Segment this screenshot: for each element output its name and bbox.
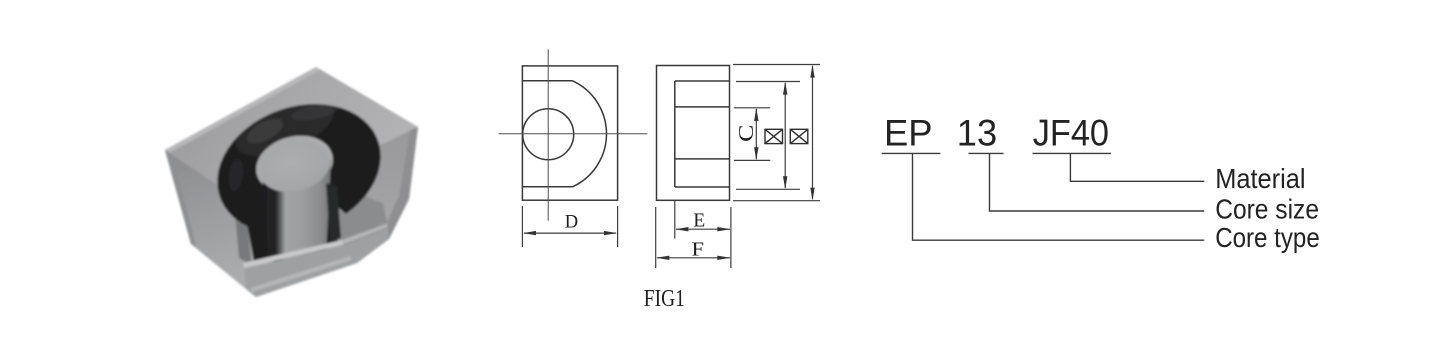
D arrowheads [523,231,536,235]
photo: front-left face [165,150,256,297]
dimension C ext line top [734,107,770,109]
photo: face boundary highlight [342,224,388,245]
leader line: 13 to Core size [990,153,1205,211]
tall height arrow line [812,66,814,199]
tall arrowheads [810,65,814,78]
technical drawing (FIG1) [522,66,729,201]
svg-text:13: 13 [957,112,997,154]
EP core photograph [165,67,418,297]
photo: bottom chamfer highlight [250,256,352,292]
leader line: JF40 to Material [1070,153,1204,181]
svg-text:F: F [692,237,705,260]
right view ext line bottom (tall) [733,200,820,202]
right view ext line top (tall) [733,64,820,66]
svg-text:Core type: Core type [1215,224,1320,254]
photo: post cylinder body [262,160,331,262]
right view cavity top line [675,80,730,82]
photo: cavity floor bright ledge [243,240,343,268]
mid arrowheads [783,82,787,95]
svg-text:JF40: JF40 [1033,111,1109,154]
winding area symbol 1 [765,129,808,143]
dimension E arrow line [676,228,730,230]
F arrowheads [656,256,669,260]
photo: cavity opening dark region on front face [244,196,358,262]
right view post top line [675,106,730,108]
photo: top face [165,67,418,208]
photo: post top ellipse [254,134,336,200]
svg-text:EP: EP [884,112,933,154]
photo: cavity floor right patch [322,192,388,246]
photo: right side strip [382,127,418,239]
photo: left edge sliver [165,150,196,246]
left view recess arc [573,81,607,187]
right view ext line bottom (mid) [736,188,800,190]
left view outline [522,66,617,200]
dimension C ext line bottom [734,159,770,161]
right view cavity left line [674,81,676,187]
C arrowheads [754,108,758,121]
left view vertical centerline [547,49,549,220]
dimension E left extension line (cavity line extended) [674,200,676,238]
winding area symbol 2 [790,129,808,143]
underline 13 [968,152,1003,154]
leader line: EP to Core type [913,153,1205,240]
arrowheads [523,65,815,261]
mid height arrow line [784,83,786,188]
svg-text:C: C [735,125,759,142]
right view cavity bottom line [675,186,730,188]
photo: front lower strip below ledge [244,228,389,297]
right view ext line top (mid) [736,81,800,83]
photo: post right gap shadow [326,183,341,242]
dimension F left extension line [655,207,657,268]
underline JF40 [1033,152,1112,154]
photo: front-right face [252,127,418,297]
dimension D arrow line [524,232,616,234]
svg-text:Material: Material [1215,163,1305,194]
dimension C arrow line [755,109,757,159]
svg-text:FIG1: FIG1 [644,284,685,312]
left view recess bottom line [522,186,572,188]
left view center hole circle [523,109,574,160]
photo: cavity dark U-ring [217,104,380,229]
left view recess top line [522,80,572,82]
underline EP [882,152,941,154]
right view post bottom line [675,158,730,160]
svg-text:Core size: Core size [1215,193,1319,225]
left view horizontal centerline [499,133,648,135]
E arrowheads [675,227,688,231]
right view outline [657,66,730,201]
photo: cavity left wall oblique band [233,192,252,266]
dimension E/F right extension line [730,207,732,268]
photo: ring mottled light patches [227,88,342,192]
photo: top face back edge highlight [165,67,320,153]
svg-text:D: D [565,213,578,233]
svg-text:E: E [693,210,705,231]
dimension D extension lines [521,206,523,247]
photo: block silhouette [165,67,418,297]
dimension F arrow line [657,257,730,259]
